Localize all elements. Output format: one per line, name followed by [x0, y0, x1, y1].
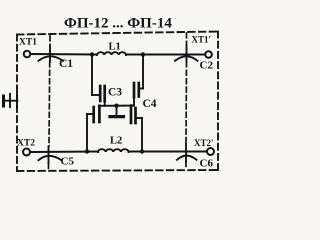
shield case bottom border: [17, 170, 218, 171]
shield case right border: [217, 32, 219, 171]
node junction mid: [114, 104, 118, 108]
capacitor C3: [100, 86, 105, 106]
svg-text:C3: C3: [108, 87, 122, 99]
shield connection dashed line right column: [185, 33, 188, 170]
svg-text:C2: C2: [200, 60, 214, 72]
ground chassis symbol: [3, 93, 18, 108]
wire bottom line left segment: [31, 151, 98, 154]
node junction top-left: [90, 52, 94, 56]
capacitor C4 upper: [134, 83, 139, 106]
capacitor C6 feedthrough: [177, 144, 197, 162]
wire drop from C3 lower to bottom line: [87, 114, 93, 152]
svg-text:C1: C1: [59, 58, 73, 70]
svg-text:XT2: XT2: [17, 139, 35, 149]
node junction bottom-right: [140, 149, 144, 153]
stand-off capacitor plate to case: [110, 106, 124, 117]
capacitor C4 lower section: [131, 106, 136, 123]
svg-text:L2: L2: [110, 136, 122, 147]
wire drop from C4 lower to bottom line: [137, 118, 142, 152]
wire mid node line: [99, 105, 134, 107]
terminal XT1': [205, 51, 212, 58]
svg-text:XT1: XT1: [19, 38, 37, 48]
svg-text:C5: C5: [61, 156, 75, 168]
inductor L2: [98, 149, 129, 152]
capacitor C2 feedthrough: [175, 46, 198, 62]
wire top line left segment: [31, 53, 97, 56]
svg-text:C6: C6: [200, 158, 214, 170]
capacitor C5 feedthrough: [39, 147, 62, 164]
svg-text:XT1': XT1': [192, 35, 212, 45]
capacitor C3 lower section: [94, 106, 100, 122]
wire bottom line right segment: [129, 151, 207, 153]
svg-text:C4: C4: [143, 98, 157, 110]
svg-text:L1: L1: [109, 42, 121, 53]
shield case left border: [16, 35, 18, 172]
wire top line right segment: [126, 54, 205, 56]
wire drop from top line to C4: [140, 55, 143, 89]
wire drop from top line to C3: [92, 55, 99, 96]
shield connection dashed line left column: [49, 36, 51, 171]
terminal XT2: [23, 149, 30, 156]
terminal XT2': [207, 148, 214, 155]
inductor L1: [97, 52, 126, 55]
node junction bottom-left: [85, 149, 89, 153]
shield case top border: [17, 32, 218, 35]
terminal XT1: [24, 51, 31, 58]
svg-text:XT2': XT2': [194, 138, 214, 148]
capacitor C1 feedthrough: [39, 47, 64, 62]
node junction top-right: [141, 52, 145, 56]
svg-text:ФП-12 ... ФП-14: ФП-12 ... ФП-14: [64, 16, 172, 32]
